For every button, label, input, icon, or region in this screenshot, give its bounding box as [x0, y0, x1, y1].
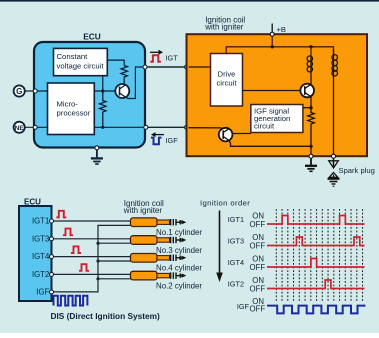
top border line — [0, 0, 379, 2]
transistor Q2 (igniter power) — [300, 84, 314, 98]
node IGF on igniter border — [185, 125, 189, 129]
+B stub wire — [271, 24, 273, 33]
wire Q2 emitter — [310, 96, 312, 107]
svg-text:IGT2: IGT2 — [228, 280, 244, 289]
svg-text:IGF: IGF — [166, 136, 179, 145]
IGT1 pulse (red) — [56, 211, 66, 218]
wire Q1 emitter to IGT out — [125, 67, 144, 99]
wire coil3 return — [98, 260, 131, 262]
ECU box U10 — [34, 42, 145, 148]
svg-text:Micro-: Micro- — [57, 100, 79, 109]
wire coil2 return — [98, 242, 131, 244]
wire sense to IGF box — [303, 107, 311, 109]
drive circuit box — [211, 54, 243, 107]
wire R3 to border ground node — [310, 146, 312, 154]
svg-text:Ignition order: Ignition order — [200, 198, 250, 207]
node G on ECU border — [33, 89, 37, 93]
svg-text:Constant: Constant — [57, 52, 89, 61]
microprocessor box — [48, 83, 95, 135]
svg-text:with igniter: with igniter — [123, 206, 163, 215]
wire IGT4 to coil3 — [52, 256, 131, 258]
primary coil L1 — [307, 56, 312, 72]
wire NE to ECU — [25, 126, 48, 128]
wire const box down to base wire — [102, 76, 104, 91]
IGT2 waveform — [267, 280, 365, 289]
resistor R1 — [121, 66, 127, 85]
coil 2 (No.3 cylinder) — [131, 236, 187, 245]
svg-text:OFF: OFF — [250, 242, 266, 251]
svg-text:IGT1: IGT1 — [228, 215, 244, 224]
wire +B into box — [271, 36, 273, 47]
svg-text:IGT4: IGT4 — [228, 258, 244, 267]
dashed timing grid — [276, 209, 362, 303]
IGT direction arrow — [150, 51, 160, 53]
node ground on ECU border — [95, 146, 99, 150]
svg-text:No.4 cylinder: No.4 cylinder — [156, 264, 202, 273]
svg-text:IGT3: IGT3 — [228, 237, 244, 246]
junction rail to primary — [309, 45, 312, 48]
svg-text:IGF: IGF — [36, 288, 49, 297]
junction on base wire — [101, 89, 104, 92]
svg-text:OFF: OFF — [250, 285, 266, 294]
wire IGF inside ECU — [94, 126, 144, 128]
svg-text:G: G — [16, 87, 22, 96]
svg-text:IGT: IGT — [166, 53, 179, 62]
terminal G — [14, 85, 25, 96]
transistor Q3 (IGF driver) — [219, 128, 233, 142]
terminal NE — [14, 122, 25, 133]
coil 3 (No.4 cylinder) — [131, 254, 187, 263]
wire IGT1 to coil1 — [52, 220, 131, 222]
svg-text:DIS (Direct Ignition System): DIS (Direct Ignition System) — [51, 311, 160, 321]
resistor R3 (emitter shunt) — [308, 108, 314, 147]
IGF waveform (blue) — [54, 296, 88, 306]
wire IGT3 to coil2 — [52, 238, 131, 240]
svg-text:Spark plug: Spark plug — [339, 166, 375, 175]
IGT2 pulse (red) — [79, 264, 89, 271]
node IGT2 — [50, 272, 54, 276]
wire drive to Q2 base — [243, 90, 301, 92]
wire IGF common return — [52, 225, 131, 292]
spark plug symbol — [328, 158, 340, 186]
node NE on ECU border — [33, 125, 37, 129]
svg-text:OFF: OFF — [250, 220, 266, 229]
svg-text:with igniter: with igniter — [204, 22, 244, 31]
wire IGT2 to coil4 — [52, 273, 131, 275]
IGT4 pulse (red) — [71, 246, 81, 253]
wire Q3 base to IGF box — [232, 133, 250, 135]
node IGT1 — [50, 219, 54, 223]
IGF signal generation circuit box — [251, 105, 303, 133]
wire secondary down to spark plug — [333, 75, 335, 155]
svg-text:OFF: OFF — [250, 304, 266, 313]
secondary coil L2 — [332, 49, 338, 76]
coil 1 (No.1 cylinder) — [131, 218, 187, 227]
wire IGT to drive circuit — [189, 66, 211, 68]
wire G to ECU — [25, 90, 48, 92]
wire rail down to primary — [310, 47, 312, 56]
junction coil3 return — [96, 259, 99, 262]
wire primary coil to Q2 collector — [310, 72, 312, 85]
IGT pulse symbol (red) — [150, 55, 161, 62]
svg-text:ECU: ECU — [83, 32, 101, 42]
wire coil4 return — [98, 278, 131, 280]
IGF direction arrow (left) — [155, 134, 165, 136]
wire supply rail — [226, 47, 333, 55]
IGT1 waveform — [267, 216, 365, 225]
constant voltage circuit box — [54, 48, 108, 75]
node IGT on ECU border — [143, 65, 147, 69]
coil 4 (No.2 cylinder) — [131, 271, 187, 280]
node IGT4 — [50, 255, 54, 259]
wire IGF line to Q3 — [189, 127, 222, 129]
svg-text:voltage circuit: voltage circuit — [57, 62, 105, 71]
wire Q3 emitter to ground rail — [229, 141, 311, 147]
wire IGT ECU to igniter — [147, 66, 185, 68]
node spark plug on igniter border — [332, 154, 336, 158]
wire IGF ECU to igniter — [148, 126, 185, 128]
IGT3 waveform — [267, 237, 365, 246]
junction on IGF wire — [101, 126, 104, 129]
svg-text:IGT1: IGT1 — [32, 217, 49, 226]
svg-text:No.3 cylinder: No.3 cylinder — [156, 246, 202, 255]
node +B terminal — [270, 32, 274, 36]
wire const box to R1 — [107, 60, 124, 65]
svg-text:+B: +B — [277, 25, 287, 34]
IGF pulse symbol (blue, inverted) — [151, 138, 162, 145]
ignition order arrow — [219, 211, 221, 276]
svg-text:NE: NE — [15, 125, 25, 132]
junction emitter/IGF-sense — [309, 106, 312, 109]
svg-text:IGT3: IGT3 — [32, 234, 49, 243]
svg-text:OFF: OFF — [250, 263, 266, 272]
ECU box (DIS) — [19, 206, 52, 301]
svg-text:Drive: Drive — [218, 69, 236, 78]
node ground on igniter border — [309, 154, 313, 158]
ground (ECU) — [91, 150, 103, 164]
transistor Q1 — [115, 84, 129, 98]
junction R3 bottom — [309, 145, 312, 148]
junction coil2 return — [96, 242, 99, 245]
resistor R2 (vertical, micro pull) — [100, 91, 106, 127]
ground (igniter) — [305, 158, 317, 171]
svg-text:No.1 cylinder: No.1 cylinder — [156, 228, 202, 237]
svg-text:circuit: circuit — [254, 121, 275, 130]
wire micro to Q1 base — [94, 90, 115, 92]
IGT4 waveform — [267, 259, 365, 268]
svg-text:circuit: circuit — [216, 78, 237, 87]
svg-text:processor: processor — [57, 109, 91, 118]
node IGF on ECU border — [144, 125, 148, 129]
node IGF — [50, 290, 54, 294]
node IGT3 — [50, 237, 54, 241]
IGF waveform (blue) — [267, 306, 366, 314]
node IGT on igniter border — [185, 65, 189, 69]
junction coil4 return — [96, 277, 99, 280]
svg-text:IGF: IGF — [237, 302, 250, 311]
svg-text:No.2 cylinder: No.2 cylinder — [156, 281, 202, 290]
svg-text:IGT2: IGT2 — [32, 270, 49, 279]
junction +B rail — [271, 45, 274, 48]
IGT3 pulse (red) — [63, 229, 73, 236]
igniter box — [187, 34, 368, 156]
svg-text:IGT4: IGT4 — [32, 252, 50, 261]
